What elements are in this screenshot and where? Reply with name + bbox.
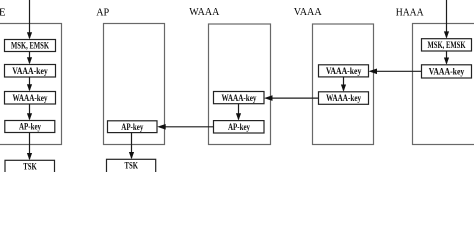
key box MSK, EMSK (HAAA) (422, 39, 472, 51)
wire: VAAA VAAA-key to WAAA-key (343, 77, 345, 91)
svg-text:TSK: TSK (124, 160, 138, 170)
svg-text:AP: AP (96, 7, 109, 19)
key box AP-key (AP) (108, 121, 158, 133)
svg-text:MSK, EMSK: MSK, EMSK (11, 41, 49, 51)
wire: E WAAA-key to AP-key (29, 104, 31, 119)
svg-text:VAAA-key: VAAA-key (326, 66, 362, 76)
wire: E AP-key down to TSK (29, 133, 31, 160)
svg-text:AP-key: AP-key (228, 122, 250, 132)
wire: E VAAA-key to WAAA-key (29, 77, 31, 90)
svg-text:WAAA-key: WAAA-key (13, 93, 48, 103)
key box VAAA-key (VAAA) (319, 65, 369, 77)
wire: EAP top arrow into E (29, 0, 31, 38)
entity WAAA outer box (209, 24, 271, 145)
svg-text:E: E (0, 6, 6, 18)
wire: HAAA VAAA-key to VAAA VAAA-key arrow (377, 70, 422, 72)
svg-text:AP-key: AP-key (121, 122, 143, 132)
key box WAAA-key (WAAA) (214, 92, 265, 104)
wire: VAAA WAAA-key to WAAA WAAA-key arrow (272, 97, 319, 99)
wire: WAAA WAAA-key to AP-key (238, 104, 240, 120)
svg-text:WAAA-key: WAAA-key (222, 93, 257, 103)
svg-text:VAAA-key: VAAA-key (429, 66, 465, 76)
svg-text:TSK: TSK (23, 161, 37, 171)
key box VAAA-key (E) (5, 65, 56, 78)
svg-text:WAAA-key: WAAA-key (326, 93, 361, 103)
entity E outer box (0, 24, 62, 145)
key box TSK (AP, clipped) (107, 159, 156, 176)
key box VAAA-key (HAAA) (422, 65, 472, 78)
key box MSK, EMSK (E) (5, 40, 56, 52)
entity HAAA outer box (413, 24, 474, 145)
svg-text:MSK, EMSK: MSK, EMSK (428, 40, 466, 50)
key box WAAA-key (VAAA) (319, 92, 369, 105)
key box TSK (E, clipped) (5, 160, 55, 176)
entity VAAA outer box (313, 24, 374, 145)
wire: HAAA MSK to VAAA-key (446, 51, 448, 64)
wire: AAA top arrow into HAAA (446, 0, 448, 37)
wire: E MSK to VAAA-key (29, 52, 31, 64)
svg-text:AP-key: AP-key (19, 122, 41, 132)
svg-text:WAAA: WAAA (189, 6, 219, 18)
key box AP-key (E) (5, 121, 55, 133)
entity AP outer box (104, 24, 165, 145)
wire: WAAA AP-key to AP AP-key arrow (165, 126, 214, 128)
key box AP-key (WAAA) (214, 121, 265, 133)
svg-text:VAAA: VAAA (294, 6, 322, 18)
wire: AP AP-key down to TSK (131, 133, 133, 158)
svg-text:VAAA-key: VAAA-key (12, 66, 48, 76)
svg-text:HAAA: HAAA (396, 7, 424, 19)
key box WAAA-key (E) (5, 92, 56, 105)
